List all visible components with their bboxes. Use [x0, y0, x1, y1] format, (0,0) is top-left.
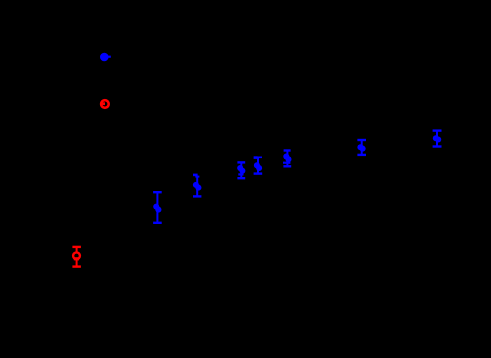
blue point 6 marker: [357, 144, 365, 151]
red data point errorbar: [72, 247, 81, 267]
blue point 5 marker: [283, 153, 291, 162]
blue point 7 errorbar: [433, 131, 442, 147]
blue point 2 marker: [193, 182, 202, 191]
red data point marker open circle: [73, 252, 80, 260]
blue point 7 marker: [433, 135, 441, 142]
blue point 4 marker: [254, 162, 262, 171]
legend marker red open circle: [101, 100, 109, 108]
blue point 4 errorbar: [254, 157, 263, 173]
blue point 5 errorbar: [283, 151, 291, 167]
blue point 2 errorbar: [193, 175, 201, 197]
blue point 3 errorbar: [237, 162, 245, 178]
blue point 1 marker: [153, 204, 161, 213]
blue point 6 errorbar: [357, 140, 366, 155]
blue point 3 marker: [237, 165, 245, 174]
blue point 1 errorbar: [153, 192, 162, 223]
legend marker blue filled circle: [100, 53, 111, 62]
